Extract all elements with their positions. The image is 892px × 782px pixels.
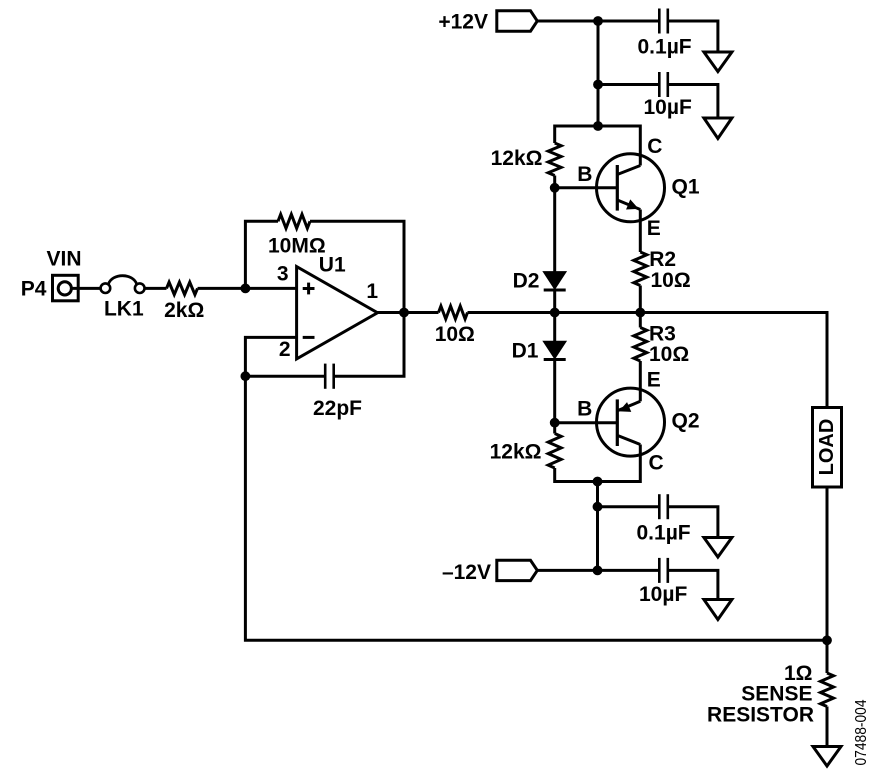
svg-text:22pF: 22pF [313,397,362,420]
svg-text:D1: D1 [512,340,539,363]
ground symbol top 1 [704,52,732,72]
wire 22pF left [245,375,325,378]
wire R3 top lead [639,313,642,328]
svg-text:10MΩ: 10MΩ [268,234,326,257]
svg-text:12kΩ: 12kΩ [491,147,543,170]
svg-text:Q2: Q2 [672,409,700,432]
ground symbol bottom 2 [704,600,732,620]
wire 2k to op-amp +input [198,287,297,290]
wire D2 cathode to mid rail [553,290,556,313]
plus symbol U1 [303,283,315,295]
wire -12V to junction [537,569,597,572]
wire mid rail to D1 anode [553,313,556,342]
resistor 10ohm output [439,306,468,319]
junction top rail [593,121,603,131]
wire bottom rail 12k/Q2 collector [555,445,641,482]
svg-text:R2: R2 [649,248,676,271]
capacitor 22pF [325,364,334,389]
svg-text:RESISTOR: RESISTOR [707,704,814,727]
svg-text:3: 3 [277,262,289,285]
wire -12V vertical rail [596,482,599,571]
wire R2 to output rail [639,286,642,313]
wire feedback bottom rail [245,376,827,640]
resistor 1ohm sense [821,673,834,706]
svg-text:10µF: 10µF [644,96,692,119]
wire 22pF right to output [334,313,404,377]
junction +12V node [593,16,603,26]
resistor 10M feedback [278,214,310,228]
svg-text:07488-004: 07488-004 [853,699,870,765]
wire capacitor 10uF to ground [668,85,718,119]
wire Q1 base [555,186,617,189]
junction -input feedback node [241,371,251,381]
wire +12V vertical rail [597,21,600,126]
wire output node to load [640,313,827,408]
wire Q1 emitter to R2 [639,210,642,253]
wire op-amp output to 10ohm [404,311,439,314]
junction sense node [822,635,832,645]
wire capacitor to ground bottom 2 [668,570,718,599]
wire feedback left vertical and top rail left [245,221,278,288]
transistor Q2 PNP [597,388,665,456]
wire capacitor C1 to ground [668,21,718,52]
op-amp U1 [297,267,378,359]
wire +12V rail to capacitor C1 [537,20,659,23]
svg-text:B: B [577,398,592,421]
svg-text:C: C [649,452,664,475]
+12V power connector [497,11,538,31]
-12V power connector [497,560,538,580]
connector P4 [53,275,79,301]
resistor R2 [634,252,647,286]
svg-text:2kΩ: 2kΩ [164,299,204,322]
transistor Q1 NPN [597,154,665,222]
wire top rail 12k/Q1 collector [555,126,641,166]
wire capacitor to ground bottom 1 [668,507,718,538]
minus symbol U1 [303,336,315,339]
load box [813,408,842,488]
wire sense top lead [826,640,829,673]
svg-text:B: B [577,163,592,186]
svg-text:10Ω: 10Ω [651,269,691,292]
svg-text:2: 2 [279,338,291,361]
capacitor 10uF bottom [659,558,668,583]
svg-text:+12V: +12V [438,11,488,34]
capacitor 0.1uF bottom [659,494,668,519]
svg-text:E: E [647,217,661,240]
wire to capacitor 0.1uF bottom [598,505,660,508]
wire output tip [378,311,405,314]
wire P4 to LK1 [71,287,100,290]
junction op-amp output node [399,308,409,318]
svg-text:–12V: –12V [442,561,491,584]
resistor R3 [634,328,647,362]
diode D2 [544,272,566,290]
wire load to sense node [826,487,829,640]
svg-text:LK1: LK1 [104,298,144,321]
wire to capacitor 10uF [598,83,659,86]
junction R2/R3 node [635,308,645,318]
wire Q2 base [555,421,617,424]
diode D1 [544,342,566,360]
svg-text:1: 1 [366,280,378,303]
wire Q1 base to D2 anode [553,188,556,272]
wire 10ohm to diode node [468,311,555,314]
junction Q1 base node [550,183,560,193]
junction Q2 base node [550,418,560,428]
capacitor 10uF top [659,72,668,97]
wire Q2 base to 12k lower [553,423,556,434]
wire to capacitor 10uF bottom [598,569,660,572]
resistor 2k [167,282,198,294]
svg-text:10µF: 10µF [639,583,687,606]
junction +input node [241,284,251,294]
svg-text:Q1: Q1 [672,175,700,198]
svg-text:E: E [647,369,661,392]
junction -12V node [593,566,603,576]
junction 0.1uF tap bottom [593,502,603,512]
wire R3 to Q2 emitter [639,361,642,401]
svg-text:0.1µF: 0.1µF [637,522,691,545]
link LK1 [101,276,145,293]
junction diode midpoint [550,308,560,318]
svg-text:P4: P4 [21,278,47,301]
svg-text:D2: D2 [513,270,540,293]
ground symbol top 2 [704,118,732,139]
resistor 12k upper [548,143,561,176]
svg-text:0.1µF: 0.1µF [638,35,692,58]
svg-text:LOAD: LOAD [816,419,838,476]
wire feedback top rail right [310,221,404,312]
wire -input [245,337,296,376]
wire LK1 to 2k [145,287,167,290]
capacitor 0.1uF top [659,9,668,34]
svg-text:12kΩ: 12kΩ [490,440,542,463]
junction bottom rail [593,477,603,487]
svg-text:SENSE: SENSE [741,683,812,706]
ground symbol sense [813,747,841,767]
svg-text:10Ω: 10Ω [649,343,689,366]
junction 10uF tap [593,80,603,90]
svg-text:C: C [647,135,662,158]
wire sense to ground [826,707,829,747]
wire diode node to R2/R3 node [555,311,641,314]
svg-text:10Ω: 10Ω [435,323,475,346]
svg-text:VIN: VIN [47,248,82,271]
wire 12k to Q1 base junction [553,176,556,188]
svg-text:1Ω: 1Ω [784,662,813,685]
wire D1 cathode to Q2 base [553,360,556,423]
resistor 12k lower [548,434,561,469]
ground symbol bottom 1 [704,538,732,558]
